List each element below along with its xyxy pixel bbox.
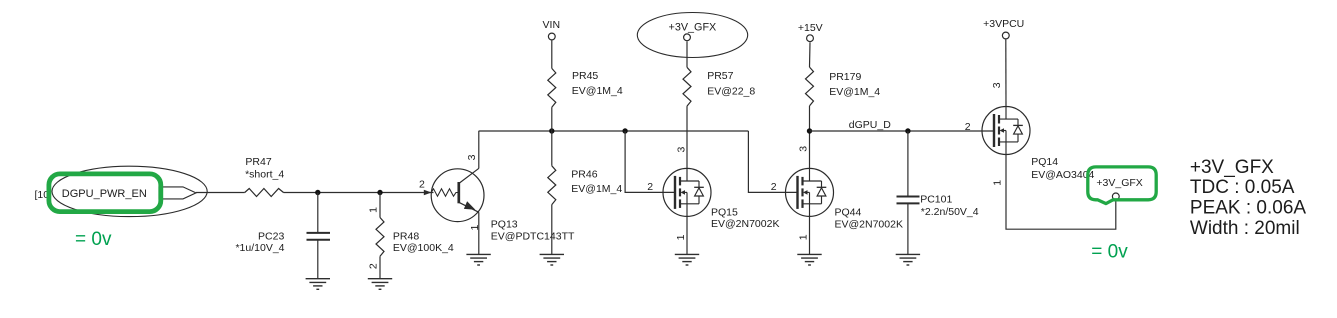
svg-text:TDC : 0.05A: TDC : 0.05A bbox=[1190, 177, 1295, 198]
resistor PR57 bbox=[683, 67, 691, 106]
wire PQ44 drain up bbox=[809, 131, 811, 168]
PQ13 base bar bbox=[457, 182, 460, 203]
PQ13 collector diagonal bbox=[459, 168, 479, 183]
svg-text:PC101: PC101 bbox=[920, 194, 952, 206]
wire junction to PC101 bbox=[907, 131, 909, 196]
ground under PR48 bbox=[368, 279, 392, 290]
svg-text:EV@100K_4: EV@100K_4 bbox=[393, 242, 454, 254]
wire PQ15 source to ground bbox=[686, 216, 688, 254]
svg-text:EV@1M_4: EV@1M_4 bbox=[572, 85, 623, 97]
svg-text:= 0v: = 0v bbox=[75, 229, 112, 250]
svg-text:PQ14: PQ14 bbox=[1031, 156, 1058, 168]
svg-text:+3V_GFX: +3V_GFX bbox=[669, 21, 717, 33]
resistor PR45 bbox=[548, 68, 556, 107]
node junction PC23 bbox=[315, 190, 320, 195]
wire +3VPCU to PQ14 drain bbox=[1005, 40, 1007, 107]
node junction PR48 bbox=[377, 190, 382, 195]
wire +15V to PR179 bbox=[809, 42, 812, 67]
ground under PC101 bbox=[896, 254, 920, 265]
svg-text:PR179: PR179 bbox=[829, 71, 861, 83]
resistor PR179 bbox=[806, 67, 814, 106]
svg-text:3: 3 bbox=[676, 147, 688, 153]
terminal +3VPCU bbox=[1002, 32, 1009, 39]
wire PQ44 source to ground bbox=[809, 216, 811, 254]
green bubble around output +3V_GFX bbox=[1088, 167, 1156, 204]
transistor PQ13 circle bbox=[431, 169, 484, 222]
svg-text:= 0v: = 0v bbox=[1091, 241, 1128, 262]
resistor PR47 bbox=[245, 189, 284, 197]
ground under PR46 bbox=[540, 254, 564, 265]
svg-text:EV@2N7002K: EV@2N7002K bbox=[711, 218, 779, 230]
wire PQ13 emitter down bbox=[478, 212, 480, 254]
svg-text:EV@1M_4: EV@1M_4 bbox=[829, 86, 880, 98]
svg-text:*1u/10V_4: *1u/10V_4 bbox=[235, 242, 284, 254]
capacitor PC23 bbox=[307, 233, 331, 240]
svg-text:*short_4: *short_4 bbox=[245, 168, 284, 180]
green highlight box around DGPU_PWR_EN bbox=[49, 174, 161, 212]
wire PR45 to bus bbox=[551, 107, 553, 131]
wire junction to PR48 bbox=[379, 193, 381, 218]
wire port to PR47 bbox=[196, 192, 245, 194]
ground under PQ15 bbox=[675, 254, 699, 265]
wire PR57 to PQ15 drain (crosses bus) bbox=[686, 106, 688, 168]
wire PR47 to base bbox=[284, 192, 434, 194]
svg-text:3: 3 bbox=[798, 146, 810, 152]
wire PQ14 source to output bbox=[1006, 155, 1116, 230]
ground under PC23 bbox=[306, 279, 330, 290]
wire VIN to PR45 bbox=[551, 41, 553, 69]
svg-text:+3V_GFX: +3V_GFX bbox=[1096, 177, 1142, 189]
ground under PQ13 bbox=[466, 254, 490, 265]
transistor Q PQ13 base arrow bbox=[424, 190, 432, 195]
svg-text:dGPU_D: dGPU_D bbox=[849, 119, 891, 131]
svg-text:2: 2 bbox=[647, 181, 653, 193]
svg-text:EV@AO3404: EV@AO3404 bbox=[1031, 169, 1094, 181]
svg-text:1: 1 bbox=[675, 234, 687, 240]
wire PR48 to ground bbox=[379, 256, 381, 278]
wire PC23 to ground bbox=[317, 240, 319, 279]
transistor (NMOS) PQ14 bbox=[982, 107, 1030, 155]
terminal output +3V_GFX bbox=[1112, 193, 1119, 200]
svg-text:PR47: PR47 bbox=[245, 156, 271, 168]
svg-text:1: 1 bbox=[992, 180, 1004, 186]
svg-text:3: 3 bbox=[991, 82, 1003, 88]
wire bus down to PQ44 gate bbox=[748, 131, 797, 192]
svg-text:EV@PDTC143TT: EV@PDTC143TT bbox=[491, 231, 575, 243]
svg-text:EV@1M_4: EV@1M_4 bbox=[571, 183, 622, 195]
node junction VIN divider bbox=[549, 128, 554, 133]
transistor (NMOS) PQ15 bbox=[663, 168, 711, 216]
wire PR46 to ground bbox=[551, 205, 553, 255]
terminal +3V_GFX bbox=[684, 34, 691, 41]
svg-text:+3VPCU: +3VPCU bbox=[983, 18, 1024, 30]
svg-text:*2.2n/50V_4: *2.2n/50V_4 bbox=[921, 206, 979, 218]
svg-text:PQ44: PQ44 bbox=[835, 207, 862, 219]
svg-text:3: 3 bbox=[466, 154, 478, 160]
wire +3V_GFX to PR57 bbox=[686, 41, 688, 67]
svg-text:PR46: PR46 bbox=[571, 169, 597, 181]
svg-text:EV@22_8: EV@22_8 bbox=[707, 85, 755, 97]
PQ13 emitter diagonal bbox=[459, 202, 479, 212]
svg-text:PQ13: PQ13 bbox=[491, 219, 518, 231]
svg-text:PC23: PC23 bbox=[258, 231, 284, 243]
terminal +15V bbox=[807, 35, 814, 42]
ellipse annotation around port bbox=[52, 166, 207, 216]
svg-text:EV@2N7002K: EV@2N7002K bbox=[835, 219, 903, 231]
svg-text:VIN: VIN bbox=[543, 19, 561, 31]
svg-text:+15V: +15V bbox=[798, 22, 823, 34]
svg-text:2: 2 bbox=[419, 179, 425, 191]
transistor (NMOS) PQ44 bbox=[786, 168, 834, 216]
resistor PR48 bbox=[376, 218, 384, 257]
resistor PR46 bbox=[548, 166, 556, 205]
svg-text:PQ15: PQ15 bbox=[711, 206, 738, 218]
wire PR179 to drain node bbox=[809, 106, 811, 131]
PQ13 internal base resistor bbox=[431, 189, 457, 196]
PQ13 emitter arrow bbox=[464, 201, 476, 210]
svg-text:DGPU_PWR_EN: DGPU_PWR_EN bbox=[62, 188, 147, 200]
ground under PQ44 bbox=[797, 254, 821, 265]
wire PC101 to ground bbox=[907, 203, 909, 254]
svg-text:2: 2 bbox=[368, 263, 380, 269]
wire gate bus bbox=[479, 130, 749, 132]
wire junction down to PQ15 gate bbox=[625, 131, 675, 192]
svg-text:PR45: PR45 bbox=[572, 70, 598, 82]
svg-text:PEAK : 0.06A: PEAK : 0.06A bbox=[1190, 198, 1307, 219]
svg-text:1: 1 bbox=[798, 234, 810, 240]
svg-text:PR57: PR57 bbox=[707, 70, 733, 82]
capacitor PC101 bbox=[897, 197, 920, 204]
svg-text:PR48: PR48 bbox=[393, 231, 419, 243]
node junction PC101 bbox=[905, 128, 910, 133]
terminal VIN bbox=[548, 33, 555, 40]
svg-text:Width : 20mil: Width : 20mil bbox=[1190, 218, 1300, 239]
svg-text:1: 1 bbox=[367, 207, 379, 213]
wire PQ13 collector up bbox=[478, 131, 480, 168]
svg-text:2: 2 bbox=[965, 121, 971, 133]
svg-text:+3V_GFX: +3V_GFX bbox=[1190, 157, 1274, 178]
node junction PQ15 gate bbox=[622, 128, 627, 133]
node junction PQ44 drain bbox=[807, 128, 812, 133]
ellipse annotation around +3V_GFX bbox=[637, 13, 747, 58]
port DGPU_PWR_EN flag outline bbox=[159, 187, 196, 199]
svg-text:2: 2 bbox=[771, 181, 777, 193]
wire junction to PC23 bbox=[317, 193, 319, 233]
wire bus to PR46 bbox=[551, 131, 553, 166]
net dGPU_D wire bbox=[810, 130, 995, 132]
